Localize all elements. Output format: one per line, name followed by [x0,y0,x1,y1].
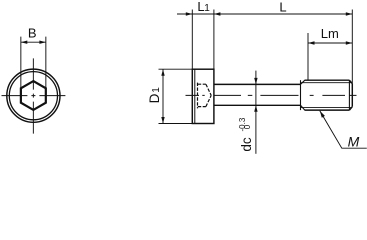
centerline horizontal [2,95,66,97]
dimension Lm arrow left [308,41,315,44]
dimension line L1 + L [177,13,352,15]
dimension L arrow left (pointing left) [214,12,221,15]
dimension line Lm [308,42,352,44]
svg-text:1: 1 [151,87,162,93]
leader line M [320,111,367,148]
thread OD top [305,79,350,81]
dimension L1 arrow (outside left, pointing right) [186,12,193,15]
dimension B arrowheads [21,41,46,44]
shank top line [214,83,301,85]
dimension D1 arrow down [161,117,164,124]
socket cone bottom (hidden) [206,95,211,106]
dimension dc arrow up (below shank) [254,105,257,112]
thread OD bottom [305,109,350,111]
dimension L right extension line [351,10,353,84]
shank bottom line [214,104,301,106]
dimension dc arrow down (above shank) [254,78,257,85]
dimension L arrow right (pointing right) [346,12,353,15]
hex socket [21,81,46,110]
thread root top [301,82,352,84]
end chamfer diagonal top [349,80,352,83]
dimension B line [21,41,46,43]
svg-text:-0.3: -0.3 [238,117,247,131]
leader M arrowhead [320,111,325,118]
svg-text:B: B [28,26,37,41]
socket chamfer edge (hidden) [197,83,199,109]
head chamfer line [194,69,196,123]
end face [351,84,353,107]
svg-text:Lm: Lm [321,26,339,41]
dimension L1 extension line left [191,10,193,69]
head chamfer circle [9,72,57,120]
end chamfer vertical [348,80,350,110]
screw head rectangle [192,69,214,123]
dimension B extension lines [21,37,46,88]
thread runout diagonal top [301,80,305,84]
dimension D1 extension line top [159,68,193,70]
socket cone top (hidden) [206,84,211,95]
dimension D1 arrow up [161,69,164,76]
hex socket hidden lines [198,83,212,109]
socket wall top (hidden) [198,83,206,85]
end chamfer diagonal bottom [349,107,352,110]
svg-text:dc: dc [239,137,254,152]
centerline vertical [32,58,34,133]
thread start vertical [300,80,302,110]
thread root bottom [301,107,352,109]
svg-text:M: M [348,134,360,150]
dimension dc line [255,71,257,154]
dimension line D1 [162,69,164,123]
svg-text:L: L [279,0,286,14]
dimension Lm arrow right [346,41,353,44]
main centerline [186,94,357,96]
dimension L1/L shared extension line [213,10,215,69]
svg-text:D: D [147,93,162,103]
head outer circle [7,69,60,122]
thread runout diagonal bottom [301,105,305,110]
socket wall bottom (hidden) [198,106,206,108]
svg-text:1: 1 [204,3,210,14]
dimension D1 extension line bottom [159,123,193,125]
dimension Lm extension line [307,33,309,81]
